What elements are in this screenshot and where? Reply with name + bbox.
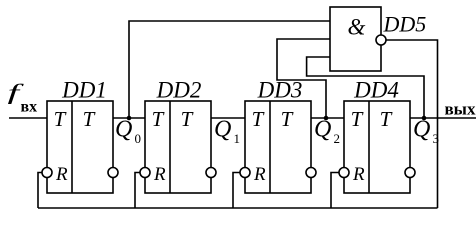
wire Q1: DD2 Q to DD3 T [211,117,245,119]
svg-text:Q: Q [115,117,132,143]
svg-text:Q: Q [314,117,331,143]
wire reset riser to DD3 R [233,173,240,209]
label Q0 [115,117,141,147]
wire input f_vx to DD1 T [9,117,47,119]
function label T DD3 [281,107,294,131]
function label T DD2 [181,107,194,131]
wire reset bus bottom [38,207,438,209]
label DD4 [353,78,399,103]
pin R input DD3 [253,164,266,185]
pin R input DD4 [352,164,365,185]
svg-text:DD5: DD5 [383,12,427,37]
label vyx output [445,100,476,119]
flip-flop DD3 [240,101,316,193]
flip-flop DD2 [140,101,216,193]
svg-text:вх: вх [21,99,38,116]
svg-text:0: 0 [135,131,142,146]
svg-text:T: T [83,107,96,131]
label DD3 [257,78,303,103]
pin R input DD2 [153,164,166,185]
svg-text:T: T [351,107,364,131]
label f_vx input [8,80,38,116]
wire reset riser to DD1 R [38,173,42,209]
svg-text:DD1: DD1 [61,78,107,103]
label Q1 [214,117,240,147]
svg-text:R: R [253,164,266,185]
label ampersand [348,15,366,40]
svg-text:T: T [181,107,194,131]
svg-text:Q: Q [214,117,231,143]
label DD1 [61,78,107,103]
svg-text:1: 1 [234,131,241,146]
wire reset riser to DD4 R [331,173,339,209]
svg-text:T: T [380,107,393,131]
node Q2 junction [324,116,329,121]
label Q2 [314,117,340,147]
op gate DD5 (NAND) [330,7,386,71]
svg-text:DD2: DD2 [156,78,202,103]
svg-text:вых: вых [445,100,476,119]
svg-text:T: T [252,107,265,131]
svg-text:Q: Q [413,117,430,143]
pin T input DD4 [351,107,364,131]
wire reset riser to DD2 R [135,173,140,209]
svg-text:R: R [55,164,68,185]
wire Q2 tap to DD5 input B [277,39,330,118]
function label T DD1 [83,107,96,131]
label DD2 [156,78,202,103]
wire Q3 output to right edge [410,117,476,119]
svg-text:T: T [281,107,294,131]
label DD5 [383,12,427,37]
pin T input DD3 [252,107,265,131]
pin R input DD1 [55,164,68,185]
svg-text:R: R [352,164,365,185]
node Q3 junction [422,116,427,121]
node Q0 junction [127,116,132,121]
wire Q0: DD1 Q to DD2 T [113,117,145,119]
wire DD5 output down [386,40,438,208]
pin T input DD1 [54,107,67,131]
svg-text:DD3: DD3 [257,78,303,103]
svg-text:R: R [153,164,166,185]
flip-flop DD1 [42,101,118,193]
svg-text:T: T [152,107,165,131]
svg-text:&: & [348,15,366,40]
flip-flop DD4 [339,101,415,193]
svg-text:DD4: DD4 [353,78,399,103]
wire Q3 tap to DD5 input C [307,57,424,118]
function label T DD4 [380,107,393,131]
wire Q2: DD3 Q to DD4 T [311,117,344,119]
svg-text:2: 2 [334,131,341,146]
wire Q0 tap to DD5 input A [129,21,330,118]
pin T input DD2 [152,107,165,131]
label Q3 [413,117,439,147]
svg-text:T: T [54,107,67,131]
